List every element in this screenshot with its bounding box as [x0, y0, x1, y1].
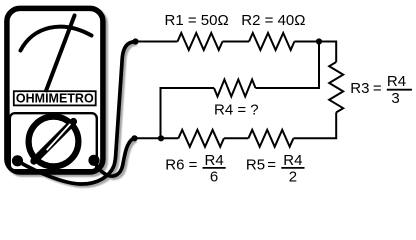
svg-text:R6: R6	[165, 156, 184, 173]
top wire left segment	[135, 41, 178, 43]
junction dot bottom left	[131, 135, 137, 141]
test lead to bottom node	[94, 138, 134, 176]
resistor R2	[249, 33, 294, 50]
knob pointer	[34, 122, 74, 162]
resistor R4	[214, 80, 256, 97]
svg-text:R4: R4	[283, 152, 302, 169]
node dot top right	[316, 38, 322, 44]
svg-text:3: 3	[391, 90, 399, 107]
meter scale arc	[21, 27, 92, 51]
meter needle	[45, 16, 75, 95]
resistor R5	[248, 130, 293, 147]
svg-text:R4: R4	[205, 152, 224, 169]
ohmmeter body shadow	[9, 11, 137, 187]
resistor R1	[178, 33, 223, 50]
label box	[14, 91, 96, 105]
svg-text:=: =	[267, 156, 276, 173]
top wire middle segment	[223, 41, 250, 43]
label R3 value	[350, 73, 412, 107]
middle branch riser from node	[256, 42, 320, 89]
svg-text:OHMÍMETRO: OHMÍMETRO	[16, 91, 94, 106]
middle wire left segment with drop	[161, 88, 215, 138]
svg-text:R1 = 50Ω: R1 = 50Ω	[165, 12, 229, 29]
right wire bottom segment	[293, 112, 336, 138]
test lead to top node	[18, 42, 135, 184]
junction dot top left	[132, 38, 138, 44]
svg-text:=: =	[189, 156, 198, 173]
knob ring	[29, 117, 79, 167]
svg-text:2: 2	[289, 168, 297, 185]
bottom wire left segment	[134, 137, 178, 139]
label R6 value	[165, 152, 225, 186]
knob panel	[10, 113, 97, 170]
junction dot bottom branch	[158, 135, 164, 141]
svg-text:=: =	[373, 80, 382, 97]
svg-text:6: 6	[210, 168, 218, 185]
right terminal	[88, 155, 99, 166]
svg-text:R3: R3	[350, 80, 369, 97]
svg-text:R2 = 40Ω: R2 = 40Ω	[241, 12, 305, 29]
top wire right segment with corner	[294, 42, 336, 63]
label R5 value	[246, 152, 305, 186]
left terminal	[12, 155, 23, 166]
knob pointer slit	[47, 124, 70, 149]
svg-text:R4: R4	[387, 73, 406, 90]
svg-text:R5: R5	[246, 156, 265, 173]
ohmmeter body	[7, 8, 103, 172]
svg-text:R4 = ?: R4 = ?	[214, 102, 259, 119]
bottom wire middle segment	[224, 137, 249, 139]
resistor R3	[329, 62, 343, 112]
resistor R6	[178, 130, 224, 147]
